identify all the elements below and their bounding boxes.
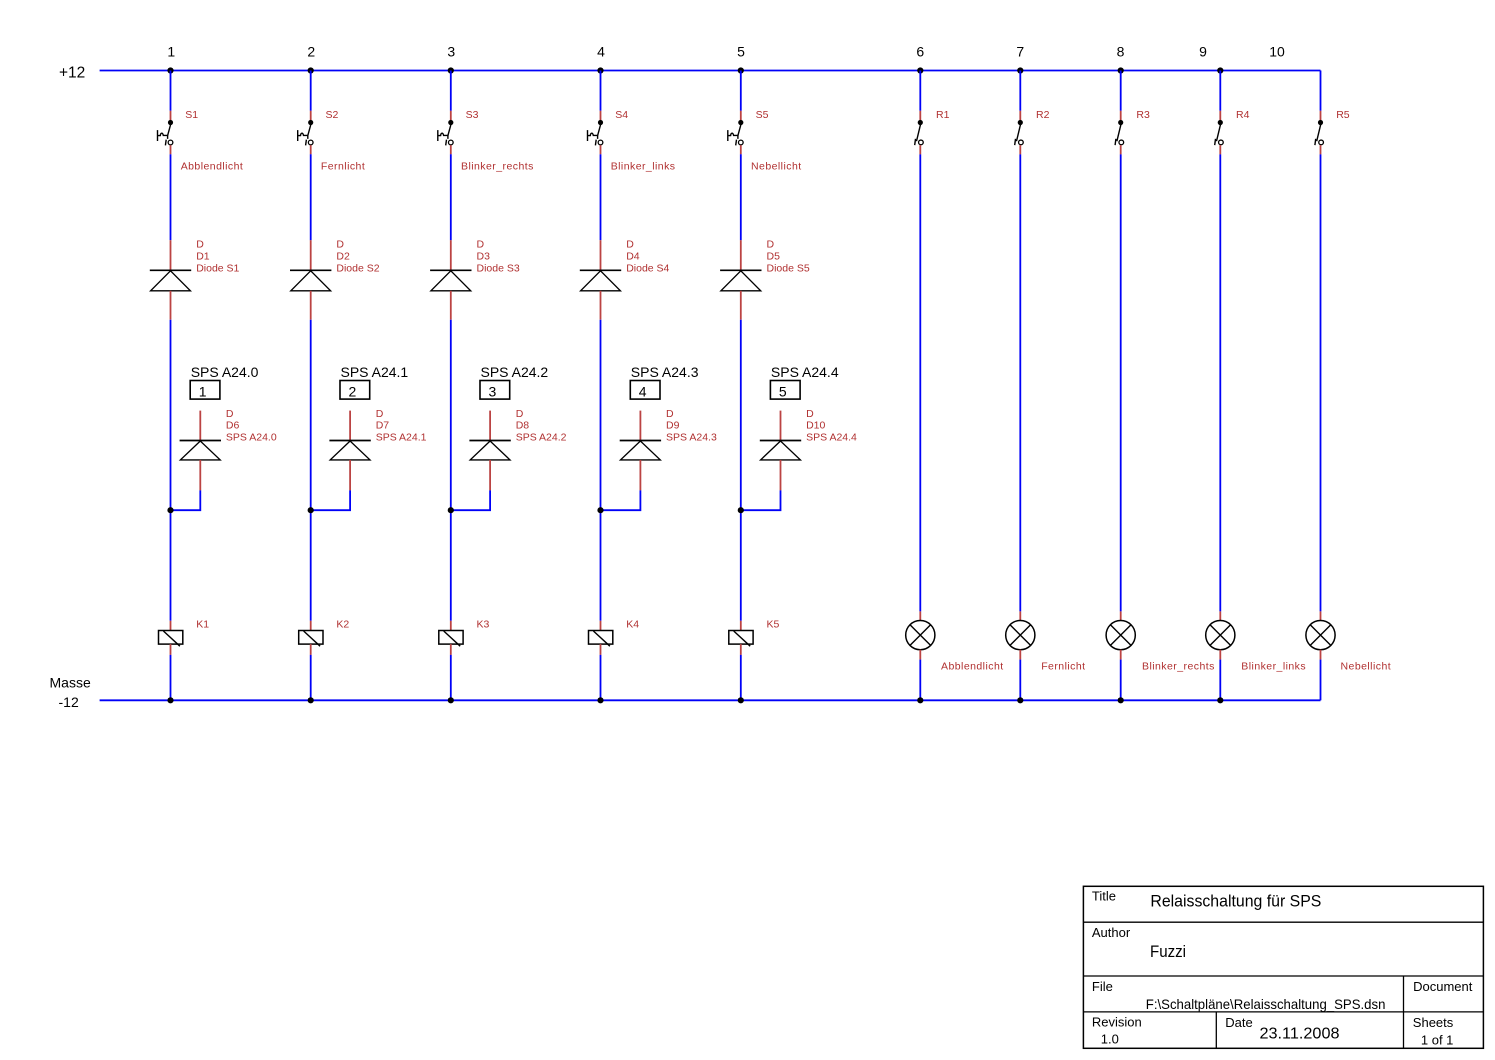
wire lamp Blinker_rechts to Masse rail [1120, 660, 1122, 701]
junction dot node column 1 [167, 507, 173, 513]
junction dot top rail column 4 [597, 67, 603, 73]
svg-text:-12: -12 [59, 694, 79, 710]
svg-text:D5: D5 [767, 251, 781, 263]
wire lamp Blinker_links to Masse rail [1219, 660, 1221, 701]
svg-text:Nebellicht: Nebellicht [1341, 661, 1392, 673]
wire +12 to R5 [1320, 71, 1322, 111]
svg-text:S1: S1 [185, 109, 198, 121]
junction dot top rail column 2 [308, 67, 314, 73]
svg-text:SPS A24.2: SPS A24.2 [516, 432, 567, 444]
wire +12 to S3 [450, 71, 452, 111]
SPS output port 1 [190, 381, 220, 400]
svg-text:Blinker_links: Blinker_links [1241, 661, 1306, 673]
switch S5 [728, 111, 744, 155]
svg-text:Blinker_rechts: Blinker_rechts [1142, 661, 1215, 673]
relay coil K5 [729, 621, 753, 655]
wire K4 to Masse rail [600, 655, 602, 700]
lamp Fernlicht [1006, 611, 1035, 659]
svg-text:S5: S5 [756, 109, 769, 121]
label D7 value/ref [376, 408, 427, 444]
svg-text:K5: K5 [767, 619, 780, 631]
svg-text:1: 1 [199, 383, 207, 399]
svg-text:SPS A24.0: SPS A24.0 [191, 364, 259, 380]
svg-text:7: 7 [1016, 44, 1024, 60]
wire lamp Nebellicht to Masse rail [1320, 660, 1322, 701]
svg-text:Relaisschaltung für SPS: Relaisschaltung für SPS [1150, 892, 1321, 911]
wire D9 to node column 4 [601, 490, 641, 510]
wire +12 to R1 [919, 71, 921, 111]
diode D2 [290, 240, 331, 320]
diode D8 [469, 411, 510, 491]
svg-text:D3: D3 [477, 251, 491, 263]
switch S3 [438, 111, 454, 155]
svg-text:D: D [626, 239, 634, 251]
svg-text:SPS A24.1: SPS A24.1 [376, 432, 427, 444]
svg-text:3: 3 [447, 44, 455, 60]
label D9 value/ref [666, 408, 717, 444]
wire D5 to K5 [740, 320, 742, 621]
wire R5 to lamp Nebellicht [1320, 154, 1322, 611]
svg-text:D1: D1 [196, 251, 210, 263]
svg-text:D: D [767, 239, 775, 251]
junction dot node column 4 [597, 507, 603, 513]
svg-text:K2: K2 [336, 619, 349, 631]
label D3 value/ref [477, 239, 520, 275]
svg-text:D: D [477, 239, 485, 251]
svg-text:Diode S1: Diode S1 [196, 263, 239, 275]
svg-text:5: 5 [737, 44, 745, 60]
svg-text:Date: Date [1225, 1015, 1252, 1030]
svg-text:D9: D9 [666, 420, 680, 432]
diode D7 [329, 411, 370, 491]
junction dot top rail column 5 [738, 67, 744, 73]
junction dot top rail column 7 [1017, 67, 1023, 73]
svg-text:Diode S5: Diode S5 [767, 263, 810, 275]
svg-text:1: 1 [167, 44, 175, 60]
svg-text:R2: R2 [1036, 109, 1050, 121]
diode D3 [430, 240, 471, 320]
svg-text:Nebellicht: Nebellicht [751, 160, 802, 172]
svg-text:R4: R4 [1236, 109, 1250, 121]
svg-text:SPS A24.3: SPS A24.3 [631, 364, 699, 380]
svg-text:Diode S4: Diode S4 [626, 263, 669, 275]
junction dot bottom rail column 3 [448, 697, 454, 703]
svg-text:F:\Schaltpläne\Relaisschaltung: F:\Schaltpläne\Relaisschaltung_SPS.dsn [1146, 996, 1386, 1012]
relay contact R2 [1015, 111, 1024, 155]
svg-text:D2: D2 [336, 251, 350, 263]
SPS output port 5 [770, 381, 800, 400]
wire +12 to S2 [310, 71, 312, 111]
svg-text:Sheets: Sheets [1413, 1015, 1454, 1030]
svg-text:D: D [666, 408, 674, 420]
lamp Abblendlicht [906, 611, 935, 659]
lamp Nebellicht [1306, 611, 1335, 659]
relay contact R5 [1315, 111, 1324, 155]
switch S4 [588, 111, 604, 155]
diode D4 [580, 240, 621, 320]
relay coil K4 [589, 621, 613, 655]
svg-text:Abblendlicht: Abblendlicht [181, 160, 244, 172]
svg-text:Title: Title [1092, 889, 1116, 904]
junction dot top rail column 1 [167, 67, 173, 73]
label D1 value/ref [196, 239, 239, 275]
svg-text:D: D [196, 239, 204, 251]
svg-text:D: D [516, 408, 524, 420]
svg-text:10: 10 [1269, 44, 1285, 60]
svg-text:+12: +12 [59, 64, 85, 81]
junction dot top rail column 3 [448, 67, 454, 73]
svg-text:SPS A24.3: SPS A24.3 [666, 432, 717, 444]
wire D10 to node column 5 [741, 490, 781, 510]
svg-text:SPS A24.4: SPS A24.4 [771, 364, 839, 380]
label D6 value/ref [226, 408, 277, 444]
svg-text:K1: K1 [196, 619, 209, 631]
svg-text:S2: S2 [326, 109, 339, 121]
junction dot node column 5 [738, 507, 744, 513]
junction dot node column 2 [308, 507, 314, 513]
svg-text:3: 3 [489, 383, 497, 399]
wire D2 to K2 [310, 320, 312, 621]
svg-text:Document: Document [1413, 979, 1473, 994]
wire R4 to lamp Blinker_links [1219, 154, 1221, 611]
wire S3 to D3 [450, 154, 452, 240]
relay contact R3 [1115, 111, 1124, 155]
lamp Blinker_rechts [1106, 611, 1135, 659]
wire K1 to Masse rail [170, 655, 172, 700]
wire S4 to D4 [600, 154, 602, 240]
svg-text:S3: S3 [466, 109, 479, 121]
svg-text:D4: D4 [626, 251, 640, 263]
wire D1 to K1 [170, 320, 172, 621]
junction dot bottom rail column 7 [1017, 697, 1023, 703]
svg-text:K3: K3 [477, 619, 490, 631]
wire lamp Abblendlicht to Masse rail [919, 660, 921, 701]
svg-text:K4: K4 [626, 619, 639, 631]
switch S2 [298, 111, 314, 155]
svg-text:SPS A24.1: SPS A24.1 [341, 364, 409, 380]
wire +12 to S1 [170, 71, 172, 111]
wire K5 to Masse rail [740, 655, 742, 700]
svg-text:Fuzzi: Fuzzi [1150, 942, 1186, 961]
svg-text:D: D [806, 408, 814, 420]
label D2 value/ref [336, 239, 379, 275]
wire D4 to K4 [600, 320, 602, 621]
svg-text:6: 6 [916, 44, 924, 60]
svg-text:4: 4 [597, 44, 605, 60]
switch S1 [158, 111, 174, 155]
junction dot bottom rail column 6 [917, 697, 923, 703]
junction dot bottom rail column 9 [1217, 697, 1223, 703]
wire D7 to node column 2 [311, 490, 350, 510]
svg-text:Blinker_links: Blinker_links [611, 160, 676, 172]
diode D5 [720, 240, 761, 320]
lamp Blinker_links [1206, 611, 1235, 659]
svg-text:2: 2 [307, 44, 315, 60]
title block frame [1083, 886, 1483, 1048]
junction dot bottom rail column 4 [597, 697, 603, 703]
svg-text:Diode S2: Diode S2 [336, 263, 379, 275]
svg-text:4: 4 [639, 383, 647, 399]
label D5 value/ref [767, 239, 810, 275]
wire R3 to lamp Blinker_rechts [1120, 154, 1122, 611]
relay contact R4 [1215, 111, 1224, 155]
label D8 value/ref [516, 408, 567, 444]
wire S1 to D1 [170, 154, 172, 240]
label D4 value/ref [626, 239, 669, 275]
svg-text:D7: D7 [376, 420, 390, 432]
svg-text:2: 2 [349, 383, 357, 399]
svg-text:R5: R5 [1336, 109, 1350, 121]
svg-text:D10: D10 [806, 420, 825, 432]
junction dot top rail column 6 [917, 67, 923, 73]
wire K2 to Masse rail [310, 655, 312, 700]
svg-text:File: File [1092, 979, 1113, 994]
svg-text:D8: D8 [516, 420, 530, 432]
wire S2 to D2 [310, 154, 312, 240]
wire +12 to R2 [1019, 71, 1021, 111]
relay coil K2 [299, 621, 323, 655]
junction dot bottom rail column 2 [308, 697, 314, 703]
SPS output port 2 [340, 381, 370, 400]
wire R1 to lamp Abblendlicht [919, 154, 921, 611]
wire +12 top rail [100, 70, 1321, 72]
svg-text:9: 9 [1199, 44, 1207, 60]
wire +12 to S5 [740, 71, 742, 111]
junction dot bottom rail column 8 [1118, 697, 1124, 703]
svg-text:8: 8 [1117, 44, 1125, 60]
wire S5 to D5 [740, 154, 742, 240]
SPS output port 3 [480, 381, 510, 400]
svg-text:D: D [226, 408, 234, 420]
svg-text:Abblendlicht: Abblendlicht [941, 661, 1004, 673]
diode D6 [180, 411, 221, 491]
wire K3 to Masse rail [450, 655, 452, 700]
wire D6 to node column 1 [171, 490, 201, 510]
wire D8 to node column 3 [451, 490, 490, 510]
junction dot node column 3 [448, 507, 454, 513]
diode D1 [150, 240, 191, 320]
svg-text:D: D [336, 239, 344, 251]
wire Masse bottom rail [100, 699, 1321, 701]
wire +12 to R3 [1120, 71, 1122, 111]
svg-text:23.11.2008: 23.11.2008 [1260, 1025, 1340, 1042]
svg-text:Masse: Masse [50, 674, 91, 690]
svg-text:1.0: 1.0 [1101, 1032, 1119, 1047]
label D10 value/ref [806, 408, 857, 444]
wire +12 to S4 [600, 71, 602, 111]
svg-text:Fernlicht: Fernlicht [1041, 661, 1085, 673]
wire lamp Fernlicht to Masse rail [1019, 660, 1021, 701]
junction dot bottom rail column 5 [738, 697, 744, 703]
junction dot bottom rail column 1 [167, 697, 173, 703]
svg-text:D: D [376, 408, 384, 420]
svg-text:D6: D6 [226, 420, 240, 432]
svg-text:Diode S3: Diode S3 [477, 263, 520, 275]
wire +12 to R4 [1219, 71, 1221, 111]
wire R2 to lamp Fernlicht [1019, 154, 1021, 611]
SPS output port 4 [630, 381, 660, 400]
svg-text:Revision: Revision [1092, 1015, 1142, 1030]
svg-text:S4: S4 [615, 109, 628, 121]
junction dot top rail column 9 [1217, 67, 1223, 73]
svg-text:R3: R3 [1136, 109, 1150, 121]
svg-text:R1: R1 [936, 109, 950, 121]
svg-text:5: 5 [779, 383, 787, 399]
svg-text:SPS A24.4: SPS A24.4 [806, 432, 857, 444]
relay coil K1 [159, 621, 183, 655]
svg-text:1 of 1: 1 of 1 [1421, 1033, 1454, 1048]
junction dot top rail column 8 [1118, 67, 1124, 73]
diode D10 [760, 411, 801, 491]
svg-text:Blinker_rechts: Blinker_rechts [461, 160, 534, 172]
svg-text:Fernlicht: Fernlicht [321, 160, 365, 172]
relay coil K3 [439, 621, 463, 655]
relay contact R1 [915, 111, 924, 155]
diode D9 [620, 411, 661, 491]
svg-text:SPS A24.0: SPS A24.0 [226, 432, 277, 444]
svg-text:Author: Author [1092, 925, 1131, 940]
svg-text:SPS A24.2: SPS A24.2 [481, 364, 549, 380]
wire D3 to K3 [450, 320, 452, 621]
